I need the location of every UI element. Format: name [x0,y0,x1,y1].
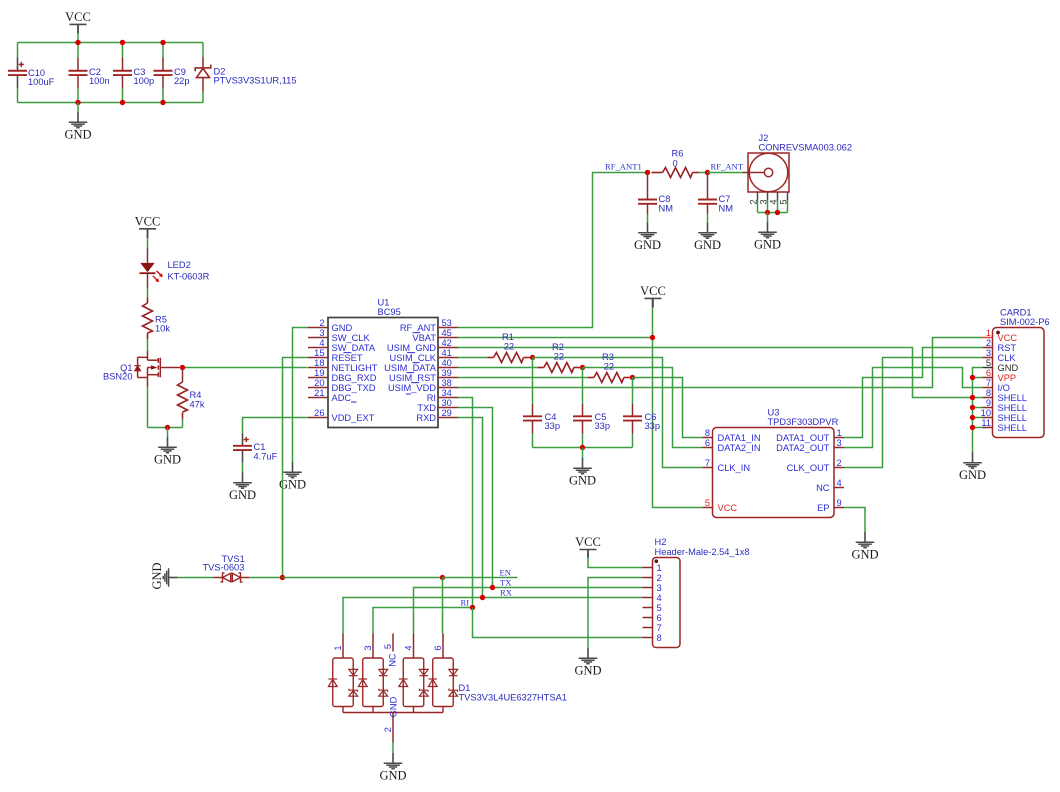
junction [160,100,165,105]
wire SIM CLK route [844,358,983,468]
svg-text:CLK_OUT: CLK_OUT [787,463,830,473]
TVS diode TVS1 [214,577,223,579]
svg-text:VCC: VCC [718,503,738,513]
svg-text:CLK_IN: CLK_IN [718,463,751,473]
svg-text:1: 1 [986,328,991,338]
wire [179,367,183,369]
U1 pin 15 RESET [308,357,328,359]
wire RI net [458,398,473,608]
ground below H2 [579,648,598,664]
J2 center pin [743,172,765,174]
resistor R5 [147,298,149,304]
svg-text:40: 40 [442,358,452,368]
resistor R4 zigzag [178,382,188,412]
D1 cell bottom drop [413,707,415,713]
svg-text:EN: EN [500,568,512,578]
wire VCC stub [587,550,589,558]
wire [167,428,169,438]
U1 pin 19 DBG_RXD [308,377,328,379]
wire SIM I/O route [844,368,983,448]
capacitor C8 [647,174,649,200]
wire D2 lower lead [202,78,204,92]
svg-text:USIM_VDD: USIM_VDD [388,383,436,393]
svg-text:7: 7 [657,623,662,633]
svg-text:USIM_DATA: USIM_DATA [384,363,437,373]
connector H2 Header-Male-2.54_1x8 body [653,558,681,648]
svg-text:SIM-002-P6: SIM-002-P6 [1000,317,1050,327]
U3 pin 7 CLK_IN [703,467,713,469]
D1 pin 1 lead [342,634,344,659]
svg-text:VCC: VCC [640,284,666,298]
wire SIM RST route [844,348,983,438]
junction [180,365,185,370]
J2 pin 4 [777,192,779,201]
junction [580,445,585,450]
wire [77,89,79,103]
svg-text:RF_ANT1: RF_ANT1 [605,162,642,172]
svg-text:VBAT: VBAT [412,333,436,343]
D1 cell for pin 1 [333,658,354,707]
wire Q1 source to ground rail [147,387,149,428]
junction [530,355,535,360]
wire [973,377,983,379]
svg-text:GND: GND [154,452,181,466]
transistor Q1 BSN20 [138,351,161,387]
svg-text:NM: NM [719,204,733,214]
H2 pin 2 [643,577,653,579]
U1 pin 42 USIM_GND [438,347,458,349]
capacitor C1 [242,434,244,446]
D1 cell for pin 6 [433,658,454,707]
svg-text:GND: GND [959,468,986,482]
ground below D1 [384,753,403,769]
svg-text:SHELL: SHELL [998,423,1027,433]
wire R4 lower lead [182,413,184,419]
resistor R3 zigzag [594,373,624,383]
Q1 body diode [135,366,141,371]
svg-text:ADC: ADC [332,393,352,403]
wire [973,407,983,409]
junction [75,40,80,45]
capacitor C10 plates [8,71,27,75]
svg-text:2: 2 [319,318,324,328]
svg-text:15: 15 [314,348,324,358]
J2 pin 5 [787,192,789,201]
wire [122,89,124,103]
wire J2 ground bus [758,212,788,214]
svg-text:33p: 33p [645,421,661,431]
wire [392,743,394,754]
resistor R2 [538,367,544,369]
D1 cell bottom drop [442,707,444,713]
U1 pin 21 ADC [308,397,328,399]
svg-text:21: 21 [314,388,324,398]
svg-text:RI: RI [461,598,470,608]
wire R3 out to U3 DATA1_IN [633,378,703,438]
U1 pin 45 VBAT [438,337,458,339]
svg-text:RST: RST [998,343,1017,353]
svg-text:33p: 33p [595,421,611,431]
svg-text:39: 39 [442,368,452,378]
U1 pin 18 NETLIGHT [308,367,328,369]
svg-text:CARD1: CARD1 [1000,308,1032,318]
junction [490,585,495,590]
J2 pin 3 [767,192,769,201]
svg-text:DATA1_OUT: DATA1_OUT [776,433,830,443]
wire filter cap ground rail [533,447,633,449]
capacitor C4 plates [523,416,542,420]
wire [630,377,633,379]
capacitor C2 plates [69,71,88,75]
svg-text:RX: RX [500,588,513,598]
resistor R1 [488,357,494,359]
svg-text:1: 1 [657,563,662,573]
wire [147,288,149,298]
svg-text:22p: 22p [174,76,190,86]
svg-text:3: 3 [837,438,842,448]
svg-text:RXD: RXD [416,413,436,423]
svg-text:EP: EP [817,503,829,513]
svg-text:J2: J2 [759,133,769,143]
svg-text:GND: GND [150,562,164,589]
junction [970,405,975,410]
svg-text:1: 1 [837,428,842,438]
svg-text:5: 5 [383,644,393,649]
H2 pin 4 [643,597,653,599]
wire to TVS1 [178,577,214,579]
IC U1 BC95 body [328,318,438,428]
svg-text:3: 3 [363,645,373,650]
CARD1 pin1 orientation dot [996,331,1000,335]
wire TX row [414,588,643,634]
CARD1 pin 8 SHELL [983,397,993,399]
wire C1 lower lead [242,451,244,463]
svg-text:6: 6 [657,613,662,623]
svg-text:DATA1_IN: DATA1_IN [718,433,761,443]
svg-text:VPP: VPP [998,373,1017,383]
wire [17,88,19,103]
svg-text:2: 2 [837,458,842,468]
D1 cell for pin 4 [403,658,424,707]
wire [147,238,149,247]
U3 pin 8 DATA1_IN [703,437,713,439]
LED LED2 [147,248,149,263]
svg-text:USIM_RST: USIM_RST [389,373,436,383]
wire [973,397,983,399]
svg-text:USIM_GND: USIM_GND [387,343,436,353]
ground left rotated [163,568,177,587]
junction [765,210,770,215]
svg-text:NM: NM [659,204,673,214]
junction [645,170,650,175]
wire C8 lower lead [647,204,649,214]
svg-text:GND: GND [569,473,596,487]
wire R1 out to U3 CLK_IN [533,358,703,468]
svg-text:19: 19 [314,368,324,378]
svg-text:3: 3 [986,348,991,358]
U3 pin 6 DATA2_IN [703,447,713,449]
svg-text:8: 8 [657,633,662,643]
svg-text:NC: NC [816,483,830,493]
svg-text:DATA2_OUT: DATA2_OUT [776,443,830,453]
wire RF_ANT net: U1 pin53 up to antenna row [458,173,648,328]
svg-text:33p: 33p [545,421,561,431]
svg-text:GND: GND [379,768,406,782]
resistor R5 zigzag [143,303,153,333]
svg-text:100uF: 100uF [28,77,55,87]
svg-text:GND: GND [229,488,256,502]
wire [532,434,534,448]
U1 pin 38 USIM_VDD [438,387,458,389]
wire EN down to D1 pin6 [442,578,444,634]
H2 pin 8 [643,637,653,639]
ground below C7 [698,223,717,239]
wire USIM_DATA from pin40 [458,367,538,369]
junction [775,210,780,215]
D1 ground bus [343,712,443,714]
wire to J2 [708,172,743,174]
svg-text:SHELL: SHELL [998,413,1027,423]
CARD1 pin 7 I/O [983,387,993,389]
CARD1 pin 2 RST [983,347,993,349]
capacitor C9 plates [154,71,173,75]
wire R2 right lead [574,367,580,369]
junction [165,425,170,430]
junction [440,575,445,580]
junction [280,575,285,580]
wire USIM_RST from pin39 [458,377,588,379]
U1 pin 39 USIM_RST [438,377,458,379]
wire U3 EP to ground [844,508,865,533]
J2 pin 2 [757,192,759,201]
svg-text:CONREVSMA003.062: CONREVSMA003.062 [759,143,853,153]
CARD1 pin 9 SHELL [983,407,993,409]
svg-text:5: 5 [705,498,710,508]
D1 pin 2 [392,713,394,743]
svg-text:TVS-0603: TVS-0603 [203,562,245,572]
capacitor C9 [162,43,164,58]
resistor R1 zigzag [494,353,524,363]
svg-text:6: 6 [705,438,710,448]
wire R3 right lead [624,377,630,379]
junction [470,605,475,610]
ground below C1 [233,473,252,489]
wire LED cathode lead [147,273,149,287]
wire top rail VCC bus [18,42,204,44]
capacitor C5 [582,368,584,405]
wire VCC to H2 pin1 [588,557,643,567]
U1 pin 29 RXD [438,417,458,419]
svg-text:SHELL: SHELL [998,403,1027,413]
junction [650,335,655,340]
CARD1 pin 5 GND [983,367,993,369]
svg-text:22: 22 [604,362,614,372]
wire [580,367,583,369]
CARD1 pin 6 VPP [983,377,993,379]
ground below C8 [638,223,657,239]
svg-text:1: 1 [333,645,343,650]
ground below cap bank [69,112,88,128]
connector CARD1 SIM-002-P6 body [993,328,1045,438]
LED2 emission arrows [153,271,163,282]
D1 pin 3 lead [372,634,374,659]
wire TVS right lead [241,577,250,579]
U1 pin 26 VDD_EXT [308,417,328,419]
D1 pin 4 lead [413,634,415,659]
wire RXD net [458,418,483,598]
svg-text:9: 9 [986,398,991,408]
svg-text:VCC: VCC [998,333,1018,343]
CARD1 pin 1 VCC [983,337,993,339]
wire SIM GND vertical [973,368,983,453]
svg-text:SW_CLK: SW_CLK [332,333,371,343]
svg-text:4.7uF: 4.7uF [254,452,278,462]
svg-text:9: 9 [837,498,842,508]
D1 pin 5 NC stub [392,634,394,652]
U1 pin 3 SW_CLK [308,337,328,339]
wire [202,92,204,103]
svg-text:53: 53 [442,318,452,328]
wire H2 pin2 to ground [588,578,643,649]
wire R1 right lead [524,357,530,359]
svg-text:VCC: VCC [135,214,161,228]
wire C5 lower lead [582,421,584,434]
svg-text:D1: D1 [459,683,471,693]
svg-text:GND: GND [851,547,878,561]
wire [767,213,769,223]
svg-text:7: 7 [986,378,991,388]
wire ground rail under Q1 [148,427,183,429]
wire USIM_GND route [458,348,973,398]
wire [77,103,79,113]
svg-text:C1: C1 [254,442,266,452]
wire EN row end [443,577,518,579]
svg-text:NETLIGHT: NETLIGHT [332,363,378,373]
junction [970,375,975,380]
wire C4 lower lead [532,421,534,434]
svg-text:2: 2 [657,573,662,583]
H2 pin 7 [643,627,653,629]
junction [970,425,975,430]
svg-text:NC: NC [388,653,398,667]
wire C7 lower lead [707,204,709,214]
svg-text:22: 22 [504,342,514,352]
U3 pin 3 DATA2_OUT [834,447,844,449]
ground below SIM shell [963,453,982,469]
wire EN row [283,577,443,579]
wire R2 out to U3 DATA2_IN [583,368,703,448]
capacitor C1 plates [233,446,252,450]
svg-text:8: 8 [986,388,991,398]
svg-text:BSN20: BSN20 [103,371,132,381]
capacitor C3 plates [113,71,132,75]
svg-text:DBG_RXD: DBG_RXD [332,373,377,383]
wire RI down to H2 pin8 [473,608,643,638]
svg-text:30: 30 [442,398,452,408]
wire RX row [343,598,643,634]
D1 pin 6 lead [442,634,444,659]
wire R6 right lead [693,172,699,174]
U3 pin 5 VCC [703,507,713,509]
svg-text:42: 42 [442,338,452,348]
U1 pin 34 RI [438,397,458,399]
wire [973,427,983,429]
svg-text:VCC: VCC [65,10,91,24]
svg-text:47k: 47k [190,400,205,410]
wire [582,434,584,448]
svg-text:10: 10 [981,408,991,418]
wire NETLIGHT net [183,367,308,369]
svg-text:PTVS3V3S1UR,115: PTVS3V3S1UR,115 [214,76,297,86]
junction [970,415,975,420]
wire EN row [249,577,283,579]
wire VBAT [458,337,653,339]
svg-text:3: 3 [657,583,662,593]
H2 pin 6 [643,617,653,619]
H2 pin 5 [643,607,653,609]
wire C6 lower lead [632,421,634,434]
svg-text:4: 4 [319,338,324,348]
wire C10 lower lead [17,76,19,89]
wire USIM_CLK from pin41 [458,357,488,359]
wire C2 lower lead [77,76,79,89]
U1 pin 53 RF_ANT [438,327,458,329]
CARD1 pin 11 SHELL [983,427,993,429]
wire RI row [373,608,473,634]
capacitor C6 plates [623,416,642,420]
resistor R6 [652,172,663,174]
svg-text:BC95: BC95 [378,307,401,317]
D1 cell bottom drop [372,707,374,713]
U1 pin 30 TXD [438,407,458,409]
ground below Q1 [158,437,177,453]
svg-text:41: 41 [442,348,452,358]
D1 cell bottom drop [342,707,344,713]
wire [973,417,983,419]
H2 pin 3 [643,587,653,589]
wire C9 lower lead [162,76,164,89]
U3 pin 2 CLK_OUT [834,467,844,469]
svg-text:USIM_CLK: USIM_CLK [390,353,437,363]
svg-text:TX: TX [500,578,512,588]
wire VDD_EXT to C1 [243,418,309,434]
Q1 source arrow [151,365,157,370]
svg-text:GND: GND [694,238,721,252]
svg-text:RF_ANT: RF_ANT [711,162,744,172]
wire bottom rail GND bus [18,102,204,104]
U3 pin 4 NC [834,487,844,489]
svg-text:SW_DATA: SW_DATA [332,343,376,353]
wire VCC stub [147,229,149,239]
svg-text:18: 18 [314,358,324,368]
capacitor C8 plates [638,200,657,204]
wire [632,434,634,448]
capacitor C3 [122,43,124,58]
svg-text:VDD_EXT: VDD_EXT [332,413,375,423]
wire TXD net [458,408,493,588]
wire VCC stub [77,24,79,33]
svg-text:GND: GND [754,237,781,251]
capacitor C7 [707,174,709,200]
svg-text:GND: GND [389,696,399,717]
svg-text:RI: RI [427,393,436,403]
U3 pin 9 EP [834,507,844,509]
svg-text:GND: GND [998,363,1019,373]
svg-text:22: 22 [554,352,564,362]
H2 pin 1 [643,567,653,569]
svg-text:26: 26 [314,408,324,418]
wire [162,89,164,103]
